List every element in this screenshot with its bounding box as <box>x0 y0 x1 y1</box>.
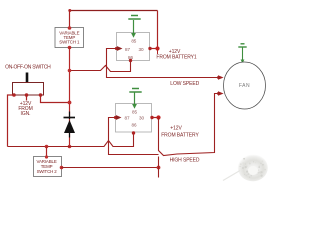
wire: rail drop to relay1 pin 30 node <box>157 11 159 50</box>
wire: switch left terminal to bottom rail <box>8 95 15 147</box>
svg-text:SWITCH 2: SWITCH 2 <box>37 169 58 174</box>
node: temp switch1 bottom terminal <box>68 46 72 50</box>
wire: switch right terminal to switch1 wire <box>41 95 70 103</box>
wire: temp switch1 down to diode and bottom rail <box>69 48 71 147</box>
relay U2 pin 87 arrow <box>114 116 117 119</box>
wire: lower vertical <box>158 157 160 178</box>
variable temp switch 1 box <box>55 28 84 48</box>
node: tee on lower vertical <box>157 166 161 170</box>
svg-text:FAN: FAN <box>239 83 250 89</box>
svg-text:LOW SPEED: LOW SPEED <box>170 81 199 87</box>
relay U2 ground symbol <box>132 88 139 90</box>
wire: drop to temp switch 2 <box>46 147 48 158</box>
relay U2 pin 30 stub <box>152 117 159 119</box>
all small text at 2x in half-scale group <box>5 30 250 174</box>
node: diode to bottom rail junction <box>68 145 72 149</box>
svg-text:FROM BATTERY1: FROM BATTERY1 <box>156 55 197 61</box>
node: junction with switch1 wire <box>68 101 72 105</box>
svg-text:85: 85 <box>132 110 137 115</box>
relay U1 ground symbol <box>131 15 138 17</box>
fan ground symbol <box>241 43 245 45</box>
ON-OFF-ON switch lever <box>26 73 29 84</box>
node: +12V battery junction relay2 <box>156 115 160 119</box>
node: rail left corner <box>68 9 71 12</box>
svg-text:ON-OFF-ON SWITCH: ON-OFF-ON SWITCH <box>5 65 51 71</box>
svg-text:30: 30 <box>139 116 144 121</box>
wire: top rail <box>70 10 158 12</box>
node: temp switch2 right terminal <box>60 166 64 170</box>
relay U2 box <box>116 104 152 133</box>
arrow into fan high speed <box>218 91 224 95</box>
node: +12V battery1 junction <box>157 49 159 55</box>
ON-OFF-ON switch body <box>13 83 44 96</box>
node: relay2 pin86 dot <box>132 131 135 134</box>
switch terminals <box>12 93 16 97</box>
svg-text:IGN.: IGN. <box>21 111 31 117</box>
fan M1 <box>224 62 266 109</box>
svg-text:+12V: +12V <box>170 126 182 132</box>
variable temp switch 2 box <box>34 157 62 177</box>
wire: relay1 pin87 left, down, LOW SPEED to fan <box>107 49 219 78</box>
wire: relay1 pin86 down, left, hop over pin87 wire, to switch1 wire junction <box>70 61 131 72</box>
svg-text:SWITCH 1: SWITCH 1 <box>59 39 80 44</box>
svg-text:87: 87 <box>125 116 130 121</box>
relay U1 pin 86 dot <box>129 59 132 62</box>
svg-text:30: 30 <box>139 47 144 52</box>
arrow into fan low speed <box>218 75 224 79</box>
svg-text:TEMP: TEMP <box>41 164 53 169</box>
bottom rail with hop over relay2 pin87 wire, riser to relay2 pin 86 <box>8 132 134 147</box>
relay U1 box <box>117 33 150 61</box>
svg-text:86: 86 <box>132 123 137 128</box>
diode D1 <box>69 112 71 120</box>
svg-text:HIGH SPEED: HIGH SPEED <box>170 158 200 164</box>
wire: temp switch2 to high-speed tee <box>62 167 159 169</box>
node: switch2 drop junction <box>45 145 49 149</box>
relay U1 pin 87 arrow <box>115 47 118 50</box>
wire: relay2 pin30 node down with jog, HIGH SPEED to fan riser <box>159 94 220 156</box>
node: junction on switch1 wire <box>68 69 72 73</box>
svg-text:86: 86 <box>128 55 133 60</box>
svg-text:85: 85 <box>131 39 136 44</box>
wire: relay2 pin87 left, down, right to jog <box>109 118 159 155</box>
svg-text:FROM BATTERY: FROM BATTERY <box>161 133 199 139</box>
svg-text:VARIABLE: VARIABLE <box>37 159 57 164</box>
relay U1 pin 30 stub <box>150 48 158 50</box>
wire: rail drop to temp switch 1 <box>69 11 71 28</box>
svg-text:87: 87 <box>125 47 130 52</box>
wire: switch mid terminal stub <box>26 95 28 101</box>
svg-text:+12V: +12V <box>169 49 181 55</box>
node: temp switch1 top terminal <box>68 26 72 30</box>
